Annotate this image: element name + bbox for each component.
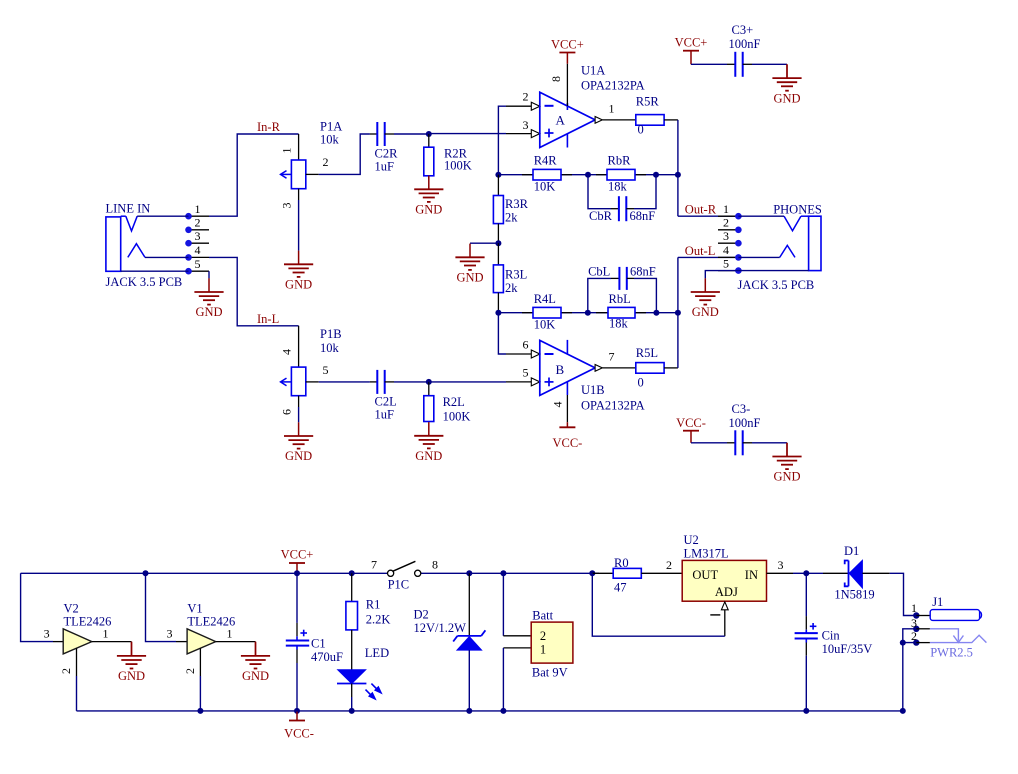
junction node L (C2L/R2L/pin5) bbox=[426, 379, 432, 385]
svg-text:100nF: 100nF bbox=[729, 416, 761, 430]
ground at divider bbox=[455, 244, 484, 285]
wire ADJ feedback bbox=[592, 573, 725, 636]
resistor R4R 10K bbox=[522, 154, 572, 194]
svg-text:5: 5 bbox=[323, 363, 329, 377]
power flag VCC- at rail bbox=[284, 711, 314, 741]
power flag VCC- at U1B bbox=[552, 422, 582, 450]
rail splitter V1 TLE2426 bbox=[167, 601, 256, 676]
resistor R3R 2k bbox=[493, 175, 528, 244]
capacitor C3+ 100nF bbox=[727, 23, 761, 77]
wire In-L net (pin4 to P1B pin4) bbox=[209, 257, 299, 325]
wire feedback node to U1A pin2 bbox=[498, 106, 531, 175]
svg-text:VCC+: VCC+ bbox=[675, 35, 708, 49]
capacitor CbL 68nF bbox=[588, 264, 657, 312]
op-amp U1B OPA2132PA bbox=[540, 340, 645, 413]
switch P1C bbox=[371, 557, 438, 591]
junction feedback node R bbox=[495, 172, 501, 178]
svg-text:P1B: P1B bbox=[320, 327, 342, 341]
wire node R to U1A pin3 bbox=[429, 133, 532, 135]
wire J1 to bottom rail bbox=[902, 643, 904, 711]
svg-text:LM317L: LM317L bbox=[684, 547, 729, 561]
wire VCC- to C3- bbox=[691, 442, 727, 444]
svg-text:PWR2.5: PWR2.5 bbox=[930, 646, 973, 660]
wire R5R to Out-R riser bbox=[664, 120, 678, 216]
wire U1B pin7 to R5L bbox=[602, 349, 636, 368]
regulator U2 LM317L bbox=[682, 533, 766, 601]
svg-text:3: 3 bbox=[44, 627, 50, 641]
resistor R3L 2k bbox=[493, 243, 527, 313]
junction R5L output node bbox=[675, 310, 681, 316]
wire jack sleeve to pin5 bbox=[121, 270, 189, 272]
junction V1 bottom rail bbox=[197, 708, 203, 714]
connector LINE IN JACK 3.5 PCB body bbox=[106, 202, 183, 290]
wire C3- to ground bbox=[752, 442, 787, 444]
ground at PHONES bbox=[691, 278, 720, 319]
junction RbR right node bbox=[653, 172, 659, 178]
wire C2R to node R bbox=[394, 133, 429, 135]
U1B pin5 arrow bbox=[531, 378, 540, 386]
resistor R2R 100K bbox=[424, 134, 472, 176]
svg-text:68nF: 68nF bbox=[630, 264, 656, 278]
resistor RbR 18k bbox=[596, 154, 646, 194]
wire rail to D1 bbox=[806, 572, 823, 574]
svg-text:3: 3 bbox=[723, 229, 729, 243]
wire C1 to bottom rail bbox=[296, 663, 298, 711]
svg-text:R5R: R5R bbox=[636, 95, 660, 109]
power flag VCC+ at C3+ bbox=[675, 35, 708, 64]
wire Out-R net bbox=[678, 215, 739, 217]
svg-text:470uF: 470uF bbox=[311, 650, 343, 664]
svg-text:V2: V2 bbox=[64, 601, 79, 615]
svg-text:2.2K: 2.2K bbox=[366, 613, 391, 627]
resistor R1 2.2K bbox=[346, 573, 391, 630]
svg-text:JACK 3.5 PCB: JACK 3.5 PCB bbox=[738, 278, 815, 292]
wire VCC- rail (bottom) bbox=[77, 710, 903, 712]
svg-text:GND: GND bbox=[285, 449, 312, 463]
connector J1 PWR2.5 bbox=[911, 595, 986, 660]
junction RbL right node bbox=[653, 310, 659, 316]
resistor R5L 0 bbox=[636, 346, 664, 389]
svg-text:6: 6 bbox=[523, 338, 529, 352]
svg-text:P1C: P1C bbox=[388, 578, 410, 592]
junction C1 top rail bbox=[294, 570, 300, 576]
svg-text:7: 7 bbox=[371, 557, 377, 571]
svg-text:R3R: R3R bbox=[505, 197, 529, 211]
svg-text:18k: 18k bbox=[608, 179, 628, 193]
wire J1 pins 2/3 common bbox=[903, 629, 917, 643]
svg-text:10k: 10k bbox=[320, 341, 340, 355]
svg-text:3: 3 bbox=[778, 558, 784, 572]
svg-text:JACK 3.5 PCB: JACK 3.5 PCB bbox=[106, 275, 183, 289]
wire VCC+ rail (top) bbox=[21, 573, 599, 641]
svg-text:D1: D1 bbox=[844, 544, 859, 558]
svg-text:2: 2 bbox=[323, 155, 329, 169]
svg-text:10uF/35V: 10uF/35V bbox=[822, 642, 873, 656]
capacitor C2R 1uF bbox=[370, 122, 398, 174]
svg-text:1: 1 bbox=[227, 627, 233, 641]
svg-text:1: 1 bbox=[540, 643, 546, 657]
junction V1 top rail bbox=[143, 570, 149, 576]
svg-text:68nF: 68nF bbox=[630, 209, 656, 223]
junction RbR left node bbox=[585, 172, 591, 178]
junction R0/ADJ node bbox=[589, 570, 595, 576]
capacitor C1 470uF bbox=[286, 573, 343, 664]
svg-text:R4L: R4L bbox=[534, 292, 556, 306]
svg-text:RbR: RbR bbox=[608, 154, 632, 168]
svg-text:3: 3 bbox=[195, 229, 201, 243]
junction D2 bottom rail bbox=[466, 708, 472, 714]
svg-text:5: 5 bbox=[523, 365, 529, 379]
svg-text:J1: J1 bbox=[932, 595, 943, 609]
wire PHONES pin5 to body bbox=[738, 270, 808, 272]
wire D2 to bottom rail bbox=[468, 650, 470, 711]
svg-text:7: 7 bbox=[609, 349, 615, 363]
junction Cin top rail bbox=[803, 570, 809, 576]
zener diode D2 12V/1.2W bbox=[414, 573, 486, 650]
svg-text:R0: R0 bbox=[614, 556, 629, 570]
svg-text:5: 5 bbox=[723, 256, 729, 270]
battery Batt Bat 9V bbox=[503, 608, 573, 679]
junction C1 bottom rail bbox=[294, 708, 300, 714]
svg-text:GND: GND bbox=[242, 669, 269, 683]
svg-text:U1B: U1B bbox=[581, 383, 605, 397]
U1B pin4 stub bbox=[551, 395, 568, 422]
junction J1 ground node bbox=[900, 640, 906, 646]
svg-text:4: 4 bbox=[280, 349, 294, 355]
junction node R (C2R/R2R/pin3) bbox=[426, 131, 432, 137]
svg-text:8: 8 bbox=[432, 557, 438, 571]
schottky diode D1 1N5819 bbox=[823, 544, 890, 601]
ground at V2 pin1 bbox=[117, 642, 146, 684]
wire LED to bottom rail bbox=[351, 684, 353, 711]
LINE IN pin dots bbox=[185, 213, 192, 275]
svg-text:R2L: R2L bbox=[443, 395, 465, 409]
U1A pin3 arrow bbox=[531, 130, 540, 138]
svg-text:C2R: C2R bbox=[375, 147, 399, 161]
svg-text:2k: 2k bbox=[505, 211, 518, 225]
svg-text:OPA2132PA: OPA2132PA bbox=[581, 79, 645, 93]
wire Batt positive bbox=[502, 573, 504, 636]
svg-text:VCC-: VCC- bbox=[552, 436, 582, 450]
wire R2R to ground bbox=[428, 176, 430, 179]
svg-text:CbL: CbL bbox=[588, 264, 610, 278]
svg-text:Out-R: Out-R bbox=[685, 202, 717, 216]
svg-text:5: 5 bbox=[195, 257, 201, 271]
svg-text:3: 3 bbox=[280, 203, 294, 209]
svg-text:R1: R1 bbox=[366, 598, 381, 612]
svg-text:47: 47 bbox=[614, 581, 627, 595]
wire V1 input drop bbox=[146, 573, 177, 641]
resistor R4L 10K bbox=[522, 292, 572, 332]
ground at R2L bbox=[414, 422, 443, 463]
resistor R5R 0 bbox=[636, 95, 664, 137]
svg-text:10K: 10K bbox=[534, 179, 556, 193]
svg-text:Cin: Cin bbox=[822, 629, 841, 643]
svg-text:D2: D2 bbox=[414, 607, 429, 621]
wire feedback row R bbox=[498, 174, 678, 176]
wire R1 to LED bbox=[351, 630, 353, 670]
wire C3+ to ground bbox=[752, 63, 787, 65]
U1B pin6 arrow bbox=[531, 350, 540, 358]
svg-text:GND: GND bbox=[456, 271, 483, 285]
net label Out-R bbox=[685, 202, 717, 216]
junction feedback node L bbox=[495, 310, 501, 316]
wire jack tip to pin1 bbox=[137, 215, 188, 217]
wire PHONES pin1 to tip contact bbox=[738, 215, 784, 217]
svg-text:12V/1.2W: 12V/1.2W bbox=[414, 621, 467, 635]
ground at P1A bbox=[284, 251, 313, 292]
capacitor C2L 1uF bbox=[370, 370, 397, 422]
svg-text:2: 2 bbox=[195, 216, 201, 230]
net label In-R bbox=[257, 120, 281, 134]
U1B output pin7 arrow bbox=[595, 365, 602, 372]
svg-text:R3L: R3L bbox=[505, 268, 527, 282]
potentiometer P1B 10k bbox=[280, 326, 342, 415]
svg-text:100K: 100K bbox=[443, 409, 471, 423]
svg-text:RbL: RbL bbox=[609, 292, 631, 306]
LINE IN pins 1-5 stubs and numbers bbox=[189, 202, 210, 271]
wire U1A pin1 to R5R bbox=[602, 101, 636, 120]
power flag VCC+ at rail bbox=[281, 548, 314, 574]
svg-text:R5L: R5L bbox=[636, 346, 658, 360]
wire Cin to bottom rail bbox=[805, 656, 807, 711]
svg-text:LED: LED bbox=[365, 646, 389, 660]
svg-text:C3-: C3- bbox=[732, 402, 751, 416]
svg-text:4: 4 bbox=[551, 402, 565, 408]
svg-text:0: 0 bbox=[638, 376, 644, 390]
svg-text:IN: IN bbox=[745, 568, 758, 582]
PHONES pin dots bbox=[735, 213, 742, 274]
wire PHONES pin5 to ground bbox=[705, 271, 738, 279]
wire C2L to node L bbox=[394, 381, 429, 383]
LED D3 bbox=[337, 646, 389, 699]
svg-text:10K: 10K bbox=[534, 317, 556, 331]
svg-text:V1: V1 bbox=[187, 601, 202, 615]
junction LED bottom rail bbox=[349, 708, 355, 714]
svg-text:1: 1 bbox=[280, 148, 294, 154]
junction D2 top rail bbox=[466, 570, 472, 576]
op-amp U1A OPA2132PA bbox=[540, 64, 645, 148]
connector PHONES JACK 3.5 PCB body bbox=[738, 202, 822, 292]
svg-text:In-R: In-R bbox=[257, 120, 281, 134]
svg-text:2: 2 bbox=[523, 90, 529, 104]
svg-text:GND: GND bbox=[415, 203, 442, 217]
svg-text:U1A: U1A bbox=[581, 64, 605, 78]
wire feedback row L bbox=[498, 312, 678, 314]
svg-text:CbR: CbR bbox=[589, 209, 613, 223]
junction Cin bottom rail bbox=[803, 708, 809, 714]
svg-text:8: 8 bbox=[549, 76, 563, 82]
svg-text:0: 0 bbox=[638, 123, 644, 137]
svg-text:OUT: OUT bbox=[692, 568, 718, 582]
capacitor CbR 68nF bbox=[588, 175, 656, 224]
svg-text:GND: GND bbox=[773, 470, 800, 484]
ground at P1B bbox=[284, 422, 313, 463]
svg-text:Bat 9V: Bat 9V bbox=[532, 666, 568, 680]
svg-text:C3+: C3+ bbox=[732, 23, 754, 37]
wire V1 pin2 to rail bbox=[199, 676, 201, 711]
svg-text:GND: GND bbox=[773, 91, 800, 105]
U1A pin8 stub bbox=[549, 64, 567, 106]
wire Out-L net bbox=[678, 256, 739, 258]
svg-text:3: 3 bbox=[523, 118, 529, 132]
svg-text:U2: U2 bbox=[684, 533, 699, 547]
svg-text:B: B bbox=[556, 362, 565, 377]
wire P1A wiper to C2R bbox=[319, 134, 370, 174]
junction R1 top rail bbox=[349, 570, 355, 576]
wire PHONES pin4 to ring contact bbox=[738, 256, 779, 258]
svg-text:1: 1 bbox=[103, 627, 109, 641]
ground at C3- bbox=[772, 443, 801, 484]
svg-text:1: 1 bbox=[195, 202, 201, 216]
svg-text:6: 6 bbox=[280, 409, 294, 415]
svg-text:2k: 2k bbox=[505, 281, 518, 295]
svg-text:VCC+: VCC+ bbox=[281, 548, 314, 562]
wire Batt negative bbox=[502, 648, 504, 711]
svg-text:VCC+: VCC+ bbox=[551, 38, 584, 52]
svg-text:2: 2 bbox=[666, 558, 672, 572]
wire P1B wiper to C2L bbox=[319, 381, 370, 383]
svg-text:A: A bbox=[556, 113, 566, 128]
svg-text:P1A: P1A bbox=[320, 120, 342, 134]
wire node L to U1B pin5 bbox=[429, 381, 532, 383]
wire P1B pin6 to ground bbox=[298, 407, 300, 422]
wire R5L to Out-L riser bbox=[664, 257, 678, 368]
svg-text:PHONES: PHONES bbox=[773, 202, 822, 216]
resistor R2L 100K bbox=[424, 382, 471, 423]
wire divider mid to ground bbox=[470, 242, 498, 244]
svg-text:LINE IN: LINE IN bbox=[106, 202, 151, 216]
wire jack ring to pin4 bbox=[145, 256, 189, 258]
net label In-L bbox=[257, 312, 279, 326]
svg-text:GND: GND bbox=[195, 305, 222, 319]
svg-text:4: 4 bbox=[195, 243, 201, 257]
wire P1A pin3 to ground bbox=[298, 200, 300, 251]
svg-text:1N5819: 1N5819 bbox=[834, 587, 874, 601]
U2 IN pin wire bbox=[767, 558, 807, 573]
resistor RbL 18k bbox=[596, 292, 646, 331]
junction R5R output node bbox=[675, 172, 681, 178]
svg-text:1: 1 bbox=[911, 601, 917, 615]
net label Out-L bbox=[685, 244, 716, 258]
svg-text:ADJ: ADJ bbox=[715, 585, 738, 599]
svg-text:1: 1 bbox=[723, 202, 729, 216]
wire In-R net (pin1 to P1A pin1) bbox=[209, 134, 299, 216]
svg-text:GND: GND bbox=[285, 278, 312, 292]
svg-text:GND: GND bbox=[118, 669, 145, 683]
junction J1 bottom rail bbox=[900, 708, 906, 714]
U2 ADJ pin arrow bbox=[710, 602, 728, 636]
svg-text:2: 2 bbox=[183, 668, 197, 674]
svg-text:100nF: 100nF bbox=[729, 37, 761, 51]
junction Batt bottom rail bbox=[500, 708, 506, 714]
capacitor Cin 10uF/35V bbox=[795, 573, 873, 656]
PHONES pins 1-5 stubs and numbers bbox=[718, 202, 738, 271]
rail splitter V2 TLE2426 bbox=[44, 601, 132, 676]
U1A output pin1 arrow bbox=[595, 117, 602, 124]
svg-text:OPA2132PA: OPA2132PA bbox=[581, 399, 645, 413]
junction Batt top rail bbox=[500, 570, 506, 576]
svg-text:1uF: 1uF bbox=[375, 408, 395, 422]
ground at V1 pin1 bbox=[241, 642, 270, 684]
svg-text:GND: GND bbox=[692, 305, 719, 319]
svg-text:2: 2 bbox=[540, 629, 546, 643]
svg-text:2: 2 bbox=[911, 629, 917, 643]
svg-text:3: 3 bbox=[911, 616, 917, 630]
wire D1 to J1 pin1 bbox=[890, 573, 917, 615]
junction RbL left node bbox=[585, 310, 591, 316]
svg-text:2: 2 bbox=[723, 216, 729, 230]
svg-text:Out-L: Out-L bbox=[685, 244, 716, 258]
svg-text:100K: 100K bbox=[444, 158, 472, 172]
svg-text:In-L: In-L bbox=[257, 312, 279, 326]
wire V2 pin2 to rail bbox=[76, 676, 78, 711]
wire pin5 to ground bbox=[208, 271, 210, 278]
svg-text:3: 3 bbox=[167, 627, 173, 641]
svg-text:GND: GND bbox=[415, 449, 442, 463]
wire feedback node L to U1B pin6 bbox=[498, 313, 531, 354]
svg-text:2: 2 bbox=[59, 668, 73, 674]
svg-text:VCC-: VCC- bbox=[676, 416, 706, 430]
wire VCC+ to C3+ bbox=[691, 63, 727, 65]
capacitor C3- 100nF bbox=[727, 402, 761, 456]
ground at C3+ bbox=[772, 64, 801, 105]
svg-text:Batt: Batt bbox=[532, 608, 553, 622]
resistor R0 47 bbox=[592, 556, 682, 595]
svg-text:1: 1 bbox=[609, 101, 615, 115]
U1A pin2 arrow bbox=[531, 102, 540, 110]
junction divider mid node bbox=[495, 240, 501, 246]
svg-text:4: 4 bbox=[723, 243, 729, 257]
svg-text:10k: 10k bbox=[320, 133, 340, 147]
svg-text:C2L: C2L bbox=[375, 395, 397, 409]
svg-text:C1: C1 bbox=[311, 637, 326, 651]
potentiometer P1A 10k bbox=[280, 120, 343, 209]
svg-text:VCC-: VCC- bbox=[284, 727, 314, 741]
power flag VCC- at C3- bbox=[676, 416, 706, 443]
ground at LINE IN pin5 bbox=[194, 278, 223, 319]
svg-text:1uF: 1uF bbox=[375, 160, 395, 174]
ground at R2R bbox=[414, 176, 443, 217]
svg-text:R4R: R4R bbox=[534, 154, 558, 168]
svg-text:18k: 18k bbox=[609, 316, 629, 330]
power flag VCC+ at U1A bbox=[551, 38, 584, 64]
